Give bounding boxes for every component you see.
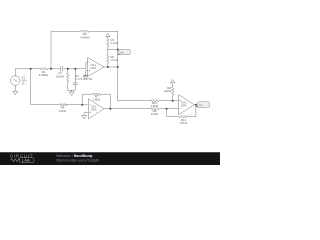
svg-text:+: + [180, 99, 182, 103]
svg-text:220nF: 220nF [56, 74, 65, 78]
svg-text:out: out [199, 104, 203, 107]
svg-text:R6: R6 [111, 55, 115, 59]
svg-text:−: − [180, 107, 182, 111]
svg-text:10kΩ: 10kΩ [151, 112, 159, 116]
svg-text:10kΩ: 10kΩ [180, 121, 188, 125]
svg-text:0.47uF: 0.47uF [83, 77, 93, 81]
svg-text:+: + [89, 69, 91, 73]
svg-text:R5: R5 [111, 38, 115, 42]
svg-text:Wittnauer / BandBump: Wittnauer / BandBump [56, 154, 93, 158]
svg-text:−: − [89, 61, 91, 65]
svg-text:−: − [89, 103, 91, 107]
svg-text:10kΩ: 10kΩ [164, 89, 172, 93]
svg-text:1k: 1k [22, 82, 26, 86]
svg-text:1.77k: 1.77k [75, 77, 83, 81]
svg-text:4.99kΩ: 4.99kΩ [39, 73, 49, 77]
svg-text:10kΩ: 10kΩ [93, 98, 101, 102]
svg-text:http://circuitlab.com/c/7q32j4: http://circuitlab.com/c/7q32j4b [56, 159, 99, 163]
svg-text:10kΩ: 10kΩ [151, 104, 159, 108]
svg-text:+: + [89, 111, 91, 115]
svg-text:ref: ref [120, 51, 123, 54]
svg-text:LAB: LAB [22, 159, 30, 163]
svg-text:10kΩ: 10kΩ [59, 109, 67, 113]
svg-text:4.99kΩ: 4.99kΩ [80, 35, 90, 39]
